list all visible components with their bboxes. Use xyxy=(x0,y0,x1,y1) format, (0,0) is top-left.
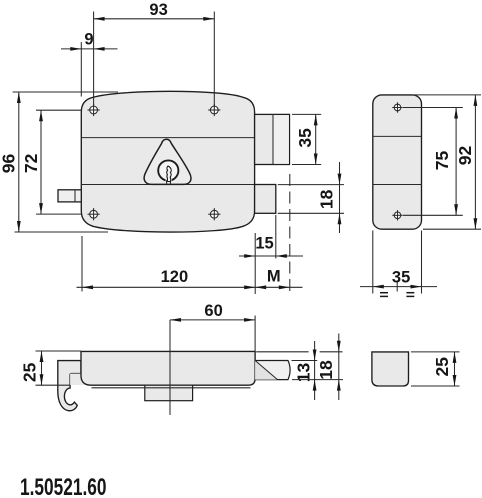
dimension 92 xyxy=(414,95,481,229)
screw hole top-left xyxy=(88,104,100,116)
lock body (front view) xyxy=(81,91,254,232)
lip over housing xyxy=(145,387,193,389)
svg-text:18: 18 xyxy=(316,360,336,380)
hook flange (bottom view, left) xyxy=(58,361,81,411)
centreline keyhole axis xyxy=(169,320,171,415)
latch bolt (bottom view) xyxy=(255,361,290,380)
dimension 72 xyxy=(21,110,81,214)
svg-text:93: 93 xyxy=(149,1,167,19)
extension deadbolt right edge down xyxy=(275,215,277,259)
dimension 18 (deadbolt housing) xyxy=(278,162,344,233)
latch bevel xyxy=(255,361,277,380)
latch bolt (left, front view) xyxy=(58,190,81,202)
dimension 9 xyxy=(61,31,118,97)
keyway throat xyxy=(166,180,168,184)
screw hole bottom-right xyxy=(208,208,220,220)
dimension 93 xyxy=(94,1,215,106)
key profile xyxy=(167,166,172,182)
keyway slot exit gap xyxy=(166,179,172,182)
fixing plate line lower xyxy=(373,184,422,186)
dimension 15 xyxy=(239,235,303,258)
svg-text:72: 72 xyxy=(21,153,41,173)
centreline M axis (dashed) xyxy=(289,174,291,294)
svg-text:35: 35 xyxy=(295,128,315,148)
equality marks xyxy=(380,293,414,297)
svg-text:18: 18 xyxy=(316,189,336,209)
svg-text:M: M xyxy=(267,268,281,286)
lock body slab (bottom view) xyxy=(81,351,255,385)
gray patch behind slab corner xyxy=(70,374,92,385)
body faceplate line lower xyxy=(81,184,254,186)
dimension 120 xyxy=(77,268,303,289)
dimension 96 xyxy=(0,92,118,232)
dimension M xyxy=(255,268,290,289)
dimension 35 (plate width) xyxy=(360,231,437,294)
keyhole circle xyxy=(158,160,178,180)
fixing plate line upper xyxy=(373,135,422,137)
dimension 18 (bottom) xyxy=(256,334,343,401)
svg-text:96: 96 xyxy=(0,154,19,174)
svg-text:60: 60 xyxy=(204,302,222,320)
dimension 13 xyxy=(292,341,318,400)
fixing plate (side view, top right) xyxy=(373,95,422,229)
svg-text:9: 9 xyxy=(84,31,93,49)
dimension 25 (left) xyxy=(20,351,81,385)
extension body right edge down xyxy=(254,233,256,294)
svg-text:75: 75 xyxy=(432,151,452,171)
screw hole top-right xyxy=(208,104,220,116)
svg-text:25: 25 xyxy=(20,362,40,382)
fixing plate screw bottom xyxy=(392,210,402,220)
svg-text:92: 92 xyxy=(455,146,475,166)
svg-text:25: 25 xyxy=(432,357,452,377)
cylinder outer part lighter xyxy=(274,115,289,164)
cylinder guard (rounded triangle) xyxy=(144,139,191,184)
fixing plate screw top xyxy=(392,102,402,112)
extension body left edge down xyxy=(81,236,83,292)
deadbolt housing (right protrusion, lower) xyxy=(255,185,276,214)
strike plate (bottom view, right) xyxy=(372,352,409,386)
dimension 75 xyxy=(403,108,463,216)
cylinder housing divider xyxy=(272,114,274,164)
deadbolt housing (bottom view) xyxy=(145,385,193,401)
screw hole bottom-left xyxy=(88,208,100,220)
body faceplate line upper xyxy=(81,137,254,139)
svg-text:15: 15 xyxy=(255,235,273,253)
svg-text:120: 120 xyxy=(161,268,189,286)
svg-text:1.50521.60: 1.50521.60 xyxy=(20,474,107,498)
latch bolt divider xyxy=(74,190,76,202)
cylinder housing (right protrusion, upper) xyxy=(255,114,290,164)
dimension 35 (cylinder housing) xyxy=(292,114,321,164)
svg-text:35: 35 xyxy=(392,268,410,286)
backplate lip line xyxy=(92,387,251,389)
dimension 25 (right) xyxy=(411,352,460,386)
dimension 60 xyxy=(170,302,255,351)
